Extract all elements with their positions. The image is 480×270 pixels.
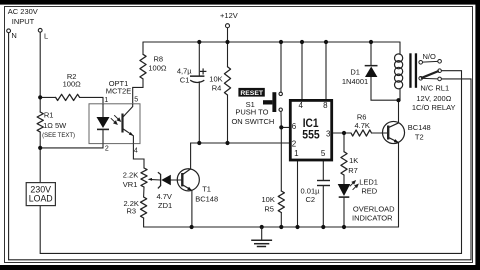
label OPT1 MCT2E (106, 79, 131, 95)
wire: pin2 wire to T1 collector (191, 143, 290, 169)
terminal N (7, 29, 11, 33)
svg-text:IC1: IC1 (303, 118, 319, 130)
wire: IC pin5 to C2 (322, 161, 324, 180)
svg-text:R8: R8 (154, 54, 164, 63)
svg-text:C1: C1 (180, 75, 190, 84)
node: D1/coil/T2 collector junction (396, 98, 400, 102)
svg-text:MCT2E: MCT2E (106, 86, 131, 95)
wire: R4 from rail (227, 42, 229, 67)
svg-text:R7: R7 (348, 166, 358, 175)
label R6 4.7K (354, 113, 369, 131)
node: rail C1 (197, 40, 201, 44)
load box 230V LOAD (26, 183, 55, 206)
wire: R7 bottom to LED1 (343, 175, 345, 184)
label T1 BC148 (195, 184, 218, 203)
svg-text:INPUT: INPUT (12, 17, 35, 26)
node: ground rail R5 (279, 225, 283, 229)
zener ZD1 4.7V (148, 172, 171, 188)
terminal +12V (226, 24, 230, 28)
label OVERLOAD INDICATOR (352, 204, 395, 222)
wire: R2 node to zigzag (40, 96, 55, 98)
wire: R6 to T2 base (372, 132, 389, 134)
label IC1 555 (302, 118, 320, 142)
svg-text:BC148: BC148 (408, 123, 431, 132)
node: R1/opto pin2/load junction (38, 146, 42, 150)
svg-text:3: 3 (326, 130, 331, 139)
node: ground rail C2 (321, 225, 325, 229)
wire: relay coil from rail (399, 42, 401, 54)
node: rail R4/+12V (225, 40, 229, 44)
svg-text:4: 4 (299, 101, 304, 110)
letterbox bar top (0, 0, 480, 5)
wire: ground rail (144, 226, 399, 228)
svg-text:1K: 1K (349, 156, 358, 165)
wire: VR1 to R3 (143, 187, 145, 197)
wire: D1 anode down to T2 collector node (371, 77, 399, 100)
svg-text:ON SWITCH: ON SWITCH (231, 117, 274, 126)
svg-text:1N4001: 1N4001 (342, 77, 368, 86)
wire: ZD1 anode to T1 base (171, 179, 183, 181)
switch S1 RESET (238, 88, 282, 112)
wire: +12V terminal drop (227, 28, 229, 42)
label R1 (42, 111, 75, 139)
wire: S1 bottom to pin6 node (280, 111, 282, 127)
relay RL1 coil (395, 54, 403, 89)
node: ground rail LED1 (342, 225, 346, 229)
svg-text:1Ω 5W: 1Ω 5W (43, 121, 67, 130)
node: pin3/R6/R7 junction (342, 131, 346, 135)
svg-text:(SEE TEXT): (SEE TEXT) (42, 133, 75, 139)
label LED1 RED (359, 177, 378, 195)
wire: +12V top rail (143, 41, 400, 43)
opto pin labels (104, 97, 138, 155)
wire: node down to 230V load box (39, 148, 41, 183)
wire: R5 bottom to ground rail (280, 213, 282, 228)
svg-text:OVERLOAD: OVERLOAD (353, 204, 395, 213)
svg-text:T1: T1 (202, 184, 211, 193)
svg-text:4: 4 (134, 148, 138, 155)
svg-text:1: 1 (104, 97, 108, 104)
wire: R4 bottom to pin2 wire (227, 95, 229, 143)
letterbox bar bottom (0, 265, 480, 270)
label R8 (148, 54, 167, 72)
capacitor C2 0.01u (317, 180, 330, 186)
svg-text:5: 5 (134, 97, 138, 104)
optocoupler OPT1 MCT2E box (89, 104, 140, 144)
svg-text:R4: R4 (212, 83, 222, 92)
resistor R7 1K (341, 152, 347, 175)
ground symbol (251, 227, 272, 247)
svg-text:4.7K: 4.7K (354, 121, 369, 130)
label C2 (301, 187, 321, 205)
wire: IC pin1 to ground rail (297, 161, 299, 227)
opto phototransistor (123, 104, 134, 144)
label C1 (177, 67, 192, 85)
node: ground rail pin1 (295, 225, 299, 229)
IC1 555 box (290, 100, 331, 160)
svg-text:LOAD: LOAD (29, 193, 53, 203)
relay contacts (419, 60, 442, 81)
node: pin6/S1/R5 junction (279, 125, 283, 129)
svg-text:N/O: N/O (423, 52, 437, 61)
svg-text:R5: R5 (264, 204, 274, 213)
opto LED (97, 104, 110, 144)
svg-text:BC148: BC148 (195, 194, 218, 203)
label 1K R7 (348, 156, 358, 175)
wire: opto pin4 to VR1 (133, 144, 144, 168)
svg-text:100Ω: 100Ω (148, 64, 167, 73)
wire: IC pin4 to rail (301, 42, 303, 100)
svg-text:10K: 10K (262, 195, 275, 204)
transistor T1 BC148 (177, 169, 199, 191)
svg-text:R3: R3 (127, 207, 137, 216)
preset VR1 2.2K (141, 168, 147, 187)
label R2 (63, 72, 82, 89)
resistor R1 1ohm 5W (37, 112, 43, 132)
svg-text:INDICATOR: INDICATOR (352, 214, 393, 223)
svg-text:555: 555 (302, 130, 320, 142)
resistor R3 2.2K (141, 197, 147, 218)
node: rail D1 (369, 40, 373, 44)
wire: load box bottom rail to relay COM riser (40, 71, 461, 254)
opto light arrows (111, 115, 121, 124)
svg-text:2.2K: 2.2K (123, 171, 138, 180)
wire: D1 from rail (370, 42, 372, 65)
LED1 RED (338, 181, 358, 197)
svg-text:1: 1 (294, 149, 299, 158)
IC pin numbers (292, 101, 331, 158)
node: rail S1 (279, 40, 283, 44)
label R3 (124, 199, 139, 216)
svg-text:T2: T2 (415, 133, 424, 142)
label N/C RL1 12V 200ohm 1C/O RELAY (412, 84, 456, 113)
capacitor C1 4.7u (190, 68, 206, 82)
label D1 1N4001 (342, 67, 368, 86)
relay core bars (409, 53, 417, 88)
wire: T2 emitter to ground rail (398, 143, 400, 228)
wire: T1 emitter to ground rail (191, 191, 193, 228)
resistor R5 10K (278, 191, 284, 213)
svg-text:ZD1: ZD1 (158, 201, 172, 210)
svg-text:L: L (44, 32, 48, 41)
resistor R4 10K (224, 67, 230, 95)
wire: R1 node to zigzag (39, 97, 41, 112)
wire: R8 bottom jog to opto pin5 (133, 79, 143, 104)
resistor R2 100ohm (56, 94, 80, 100)
svg-text:5: 5 (321, 149, 326, 158)
node: rail pin4 (300, 40, 304, 44)
svg-text:RESET: RESET (240, 90, 264, 97)
wire: R7 top from pin3 node (343, 133, 345, 152)
wire: C1 bottom to trigger node (198, 82, 200, 143)
node: ground rail ground symbol (260, 225, 264, 229)
svg-text:8: 8 (323, 101, 328, 110)
label VR1 (123, 171, 138, 189)
node: L/R2/R1 junction (38, 95, 42, 99)
label 4.7V ZD1 (157, 192, 173, 210)
svg-text:AC 230V: AC 230V (8, 7, 38, 16)
svg-text:1C/O RELAY: 1C/O RELAY (412, 103, 456, 112)
wire: IC pin8 to rail (325, 42, 327, 100)
wire: ZD1 cathode to VR1 wiper (152, 179, 161, 181)
wire: coil bottom to T2 collector (399, 88, 401, 123)
resistor R6 4.7K (351, 130, 372, 136)
svg-text:LED1: LED1 (359, 177, 378, 186)
node: pin2/C1/T1 junction (197, 141, 201, 145)
svg-text:VR1: VR1 (123, 180, 138, 189)
svg-text:4,7µ: 4,7µ (177, 67, 192, 76)
wire: pin6 node down to R5 (280, 127, 282, 191)
svg-text:C2: C2 (306, 195, 316, 204)
svg-text:D1: D1 (350, 67, 360, 76)
label T2 BC148 (408, 123, 431, 142)
svg-text:R1: R1 (44, 111, 54, 120)
wire: R2 to opto pin1 (80, 97, 103, 104)
svg-text:2: 2 (105, 145, 109, 152)
label S1 PUSH TO ON SWITCH (231, 100, 274, 126)
wire: IC pin3 to R6/R7 node (333, 132, 351, 134)
wire: S1 top to rail (280, 42, 282, 92)
diode D1 1N4001 (365, 65, 378, 77)
svg-text:100Ω: 100Ω (63, 80, 82, 89)
svg-text:10K: 10K (209, 74, 222, 83)
wire: R1 bottom to node (39, 132, 41, 148)
resistor R8 100ohm (140, 54, 146, 79)
label AC 230V INPUT (8, 7, 48, 41)
svg-text:RED: RED (361, 187, 377, 196)
wire: pin6 node to IC (281, 126, 290, 128)
wire: L terminal down to R2/R1 node (39, 32, 41, 97)
svg-text:N: N (11, 31, 16, 40)
label R4 (209, 74, 222, 92)
svg-text:PUSH TO: PUSH TO (235, 107, 268, 116)
wire: C2 bottom to ground rail (322, 186, 324, 227)
terminal L (38, 28, 42, 32)
svg-text:2: 2 (292, 139, 297, 148)
svg-text:6: 6 (292, 122, 297, 131)
svg-text:4.7V: 4.7V (157, 192, 172, 201)
transistor T2 BC148 (382, 121, 404, 143)
wire: C1 from rail (198, 42, 200, 75)
label 230V LOAD (29, 185, 53, 204)
node: pin2/R4 junction (225, 141, 229, 145)
wire: R8 from rail (142, 42, 144, 54)
wire: opto pin2 down and left to R1 node (40, 144, 103, 148)
wire: LED1 cathode to ground rail (343, 197, 345, 227)
svg-text:N/C RL1: N/C RL1 (420, 84, 449, 93)
svg-text:+12V: +12V (220, 11, 238, 20)
node: rail pin8 (324, 40, 328, 44)
label R5 (262, 195, 275, 213)
letterbox bar right (475, 0, 480, 270)
svg-text:12V, 200Ω: 12V, 200Ω (416, 94, 451, 103)
node: ground rail T1 emitter (190, 225, 194, 229)
wire: R3 bottom to ground rail (143, 218, 145, 227)
